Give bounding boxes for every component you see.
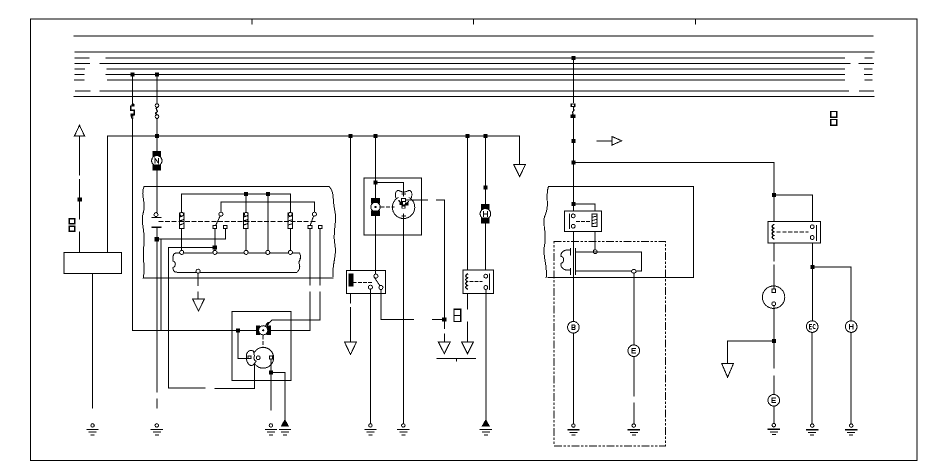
distributor assembly box (top) bbox=[364, 178, 421, 235]
dashed HT link coil to distributor bbox=[262, 336, 264, 347]
relay R2 bbox=[463, 270, 494, 293]
down arrow A4 bbox=[438, 342, 450, 354]
wire check connector down bbox=[772, 306, 775, 395]
fuse F3 bbox=[571, 104, 575, 118]
wire relay R1 right to HT junction bbox=[381, 290, 444, 320]
bus line 7 bbox=[75, 79, 872, 81]
splice circle B bbox=[568, 322, 580, 334]
switch contact S1 bbox=[152, 213, 161, 227]
wire circle E2 to ground bbox=[773, 406, 775, 423]
switch contact S4 (hatched) bbox=[288, 212, 292, 250]
relay R3 bbox=[564, 211, 601, 231]
plate terminal T2 bbox=[213, 250, 217, 254]
motor H bbox=[480, 205, 491, 223]
switch key plate bbox=[173, 253, 300, 272]
ignition coil IC2 bbox=[371, 199, 380, 216]
wire W1 from bus to fuse F1 bbox=[132, 75, 134, 104]
wire W3 through pickup area down bbox=[572, 231, 574, 321]
wire pickup to circle B bbox=[572, 333, 574, 424]
ECM box bbox=[544, 186, 694, 277]
check connector circle bbox=[762, 286, 784, 308]
pickup coil component bbox=[561, 249, 642, 275]
plate terminal T4 bbox=[266, 250, 270, 254]
wire relay R3 to pickup terminal bbox=[593, 231, 597, 253]
plate terminal T1 bbox=[180, 250, 184, 254]
distributor D2 bbox=[392, 190, 414, 218]
down arrow A6 bbox=[514, 165, 526, 177]
igniter box bbox=[232, 312, 291, 381]
wire H to ground G12 bbox=[850, 332, 852, 423]
distributor D1 bbox=[246, 347, 273, 368]
wire relay R2 right to ground G7 bbox=[485, 289, 487, 420]
wire coil2 to relay R1 bbox=[375, 216, 377, 274]
ground G11 bbox=[807, 424, 818, 435]
HT lead from distributor cap bbox=[406, 200, 446, 341]
switch contact S2 (hatched) bbox=[180, 212, 184, 250]
ignition switch internal bus 1 bbox=[182, 192, 291, 250]
wire branch to relay R3 coil bbox=[573, 204, 595, 211]
wire W2 fuse to noise filter bbox=[156, 118, 158, 151]
switch contact S3 (hatched) bbox=[244, 212, 248, 250]
wire ACC from switch S6 left terminal bbox=[270, 229, 310, 331]
bus line 9 bbox=[74, 95, 874, 97]
wire W2 splice down to ground bbox=[156, 241, 158, 392]
node dot y136 x375 bbox=[374, 135, 377, 138]
dashed link coil2 to distributor2 bbox=[381, 206, 394, 208]
plate bottom terminal bbox=[196, 269, 200, 299]
wire coil right cap to switch terminal bbox=[270, 329, 310, 331]
bus line 5 bbox=[75, 68, 872, 70]
ground G5 bbox=[365, 424, 376, 435]
relay R1 bbox=[346, 270, 385, 293]
bus line 8 bbox=[76, 90, 874, 92]
splice circle E bbox=[628, 345, 640, 357]
ground G10 bbox=[768, 424, 779, 435]
wire W3 from bus L3 down bbox=[572, 58, 574, 103]
right arrow A7 bbox=[597, 136, 622, 145]
shield dashed box bbox=[554, 242, 666, 446]
branch to arrow A8 bbox=[728, 341, 774, 362]
wire W6 bus y136 to relay R1 bbox=[349, 136, 351, 270]
wire IG2 from switch S6 right terminal bbox=[269, 229, 321, 324]
wire relay R1 to arrow A3 bbox=[349, 293, 351, 341]
bus line 6 bbox=[75, 74, 872, 76]
node dot y136 x350 bbox=[349, 135, 352, 138]
wire corner to arrow A6 bbox=[519, 136, 521, 164]
node dot y136 x467 bbox=[466, 135, 469, 138]
wire W2 filter to ignition switch contact bbox=[156, 170, 158, 213]
down arrow A2 bbox=[193, 299, 205, 311]
wire W2 from bus to fuse F2 bbox=[156, 75, 158, 105]
connector pair CN1 bbox=[69, 219, 75, 231]
wire ST branch horizontal y247 bbox=[168, 246, 254, 389]
ground G7 (filled) bbox=[480, 420, 491, 435]
node W3 y162 tap bbox=[572, 161, 575, 164]
wire box B1 to ground bbox=[92, 273, 94, 408]
relay R4 bbox=[768, 221, 820, 243]
node W3 arrow tap bbox=[572, 139, 575, 142]
wire relay R4 to check connector bbox=[773, 243, 775, 291]
node splice on coil feed bbox=[236, 329, 239, 332]
ground G8 bbox=[568, 424, 579, 435]
wire W5 bus y136 to H motor bbox=[484, 136, 487, 205]
wire W1 horizontal to igniter coil bbox=[133, 329, 257, 331]
wire relay R2 to connector and arrow A5 bbox=[467, 293, 469, 341]
wire rotor feed inside igniter bbox=[238, 330, 247, 358]
wire relay R4 right down bbox=[811, 243, 851, 321]
plate terminal T5 bbox=[288, 250, 292, 254]
node bus tap 2 bbox=[156, 73, 159, 76]
ground G12 bbox=[846, 424, 857, 435]
switch contact S6 (lever) bbox=[308, 212, 322, 228]
splice circle E2 bbox=[768, 395, 780, 407]
down arrow A5 bbox=[462, 342, 474, 354]
wire relay R1 center to ground G5 bbox=[369, 289, 371, 423]
bus line 2 bbox=[75, 51, 874, 53]
bus line 4 bbox=[75, 63, 873, 65]
ground G6 bbox=[398, 424, 409, 435]
ground G4 (filled) bbox=[279, 420, 290, 435]
ground G2 bbox=[151, 424, 162, 435]
wire y162 corner down to relay R4 bbox=[772, 162, 812, 221]
plate terminal T3 bbox=[244, 250, 248, 254]
wire distributor to grounds bbox=[269, 359, 285, 420]
down arrow A3 bbox=[345, 342, 357, 354]
node bus tap 3 bbox=[572, 57, 575, 60]
wire W3 fuse to ECM bbox=[572, 118, 574, 212]
wire W4 bus y136 to relay R2 bbox=[467, 136, 469, 270]
long wire y162 to right section bbox=[573, 161, 773, 163]
node dot y136 x485 bbox=[484, 135, 487, 138]
node splice SW bbox=[155, 238, 158, 241]
connector pair CN2 bbox=[454, 309, 461, 321]
wire IG branch from switch splice to coil wire bbox=[157, 229, 226, 331]
shield bar under arrows bbox=[437, 358, 475, 361]
switch mechanical dashed link bbox=[159, 221, 316, 223]
ground G9 bbox=[628, 424, 639, 435]
switch contact S5 (lever) bbox=[213, 212, 227, 250]
ignition switch internal bus 2 bbox=[221, 202, 315, 212]
wire W1 fuse to corner at y330 bbox=[132, 118, 134, 330]
wire distributor2 down to ground bbox=[402, 218, 404, 424]
wire EC to ground G11 bbox=[811, 332, 813, 423]
noise filter N bbox=[152, 152, 162, 170]
splice circle EC bbox=[806, 321, 818, 333]
wire W7 into assembly bbox=[374, 136, 404, 199]
bus line 1 bbox=[74, 35, 873, 37]
wire W2 contact to splice bbox=[156, 229, 158, 240]
node dot y136 x157 bbox=[156, 135, 159, 138]
main horizontal wire y136 bbox=[107, 136, 519, 253]
fuse F1 bbox=[131, 104, 135, 119]
connector pair CN3 bbox=[831, 112, 837, 126]
wire pickup oval to circle E bbox=[633, 273, 635, 424]
ground G3 bbox=[265, 424, 276, 435]
ignition switch enclosure bbox=[142, 187, 335, 278]
ignition coil IC1 bbox=[257, 322, 271, 335]
splice circle H bbox=[845, 321, 857, 333]
ground G1 bbox=[87, 424, 98, 435]
down arrow A8 bbox=[722, 364, 734, 378]
bus line 3 bbox=[75, 57, 872, 59]
component box B1 (left) bbox=[64, 253, 122, 274]
up arrow A1 (to page top-left) bbox=[75, 125, 85, 252]
fuse F2 bbox=[155, 104, 159, 119]
node splice ECM bbox=[572, 202, 575, 205]
wire H motor to relay R2 bbox=[484, 223, 486, 270]
node bus tap 1 bbox=[131, 73, 134, 76]
